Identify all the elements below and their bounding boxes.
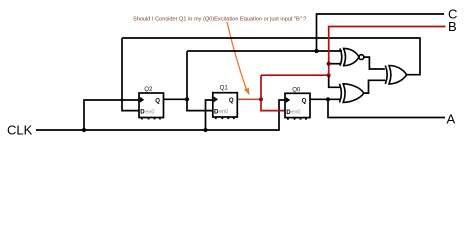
wire D1 net vertical and to Q1 D [187, 51, 213, 111]
node Q0Q junction [326, 97, 330, 101]
op XNOR U1 body [340, 48, 364, 65]
svg-text:B: B [448, 19, 457, 34]
annotation arrow [227, 22, 247, 91]
wire Q1 clock branch [206, 100, 214, 130]
op XOR U3 right body [385, 66, 406, 84]
wire red vertical to Q0 D [261, 75, 285, 110]
svg-text:Q: Q [155, 97, 160, 104]
node Q2Q junction [185, 97, 189, 101]
svg-text:en0: en0 [145, 109, 154, 115]
wire Q2 clock branch [84, 100, 139, 130]
wire Q2 D input feedback [122, 38, 139, 111]
node red junction at Q1Q branch [259, 97, 263, 101]
svg-text:en0: en0 [291, 110, 300, 116]
svg-text:en0: en0 [219, 109, 228, 115]
node C tap junction [314, 49, 318, 53]
wire XNOR output to XOR3 top input [364, 57, 385, 69]
wire XOR2 output to XOR3 bottom input [364, 80, 386, 93]
wire C output [317, 14, 445, 51]
wire Q0 Q output to XOR2 bottom input [310, 98, 340, 100]
op XOR U2 bottom body [340, 84, 364, 103]
svg-text:Q0: Q0 [292, 86, 301, 93]
node CLK-Q2 junction [82, 128, 86, 132]
flip-flop Q0 [285, 86, 310, 119]
flip-flop Q2 [139, 86, 164, 119]
wire red horizontal mid [261, 74, 329, 76]
svg-text:Q: Q [229, 97, 234, 104]
wire Q1 Q output (highlighted) [237, 98, 261, 100]
wire D1 net horizontal to XNOR top input [187, 50, 342, 52]
wire A output [328, 99, 445, 117]
svg-text:Q: Q [302, 98, 307, 105]
wire CLK main [36, 100, 285, 130]
svg-text:CLK: CLK [7, 123, 33, 138]
wire XNOR bottom input stub [329, 63, 341, 65]
svg-text:A: A [447, 111, 456, 126]
svg-text:Q2: Q2 [144, 86, 153, 93]
wire Q2 Q output [163, 98, 187, 100]
flip-flop Q1 [213, 85, 238, 120]
node stub junction on red vertical [327, 62, 331, 66]
node CLK-Q1 junction [203, 128, 207, 132]
svg-text:Should I Consider Q1 in my (Q0: Should I Consider Q1 in my (Q0)Excitatio… [133, 16, 306, 22]
wire feedback top from XOR3 output [122, 38, 420, 75]
wire B red: vertical and top line [329, 27, 446, 76]
svg-text:Q1: Q1 [220, 85, 229, 92]
wire B branch down to XOR2 top input [329, 75, 340, 87]
node red junction B corner [327, 73, 331, 77]
